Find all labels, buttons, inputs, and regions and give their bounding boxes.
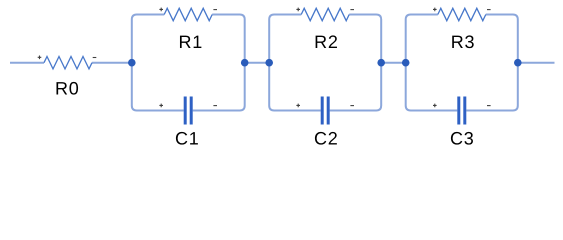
node B	[241, 59, 249, 67]
node A	[128, 59, 136, 67]
wire R0 to node A	[92, 62, 132, 64]
capacitor C2	[296, 97, 354, 149]
node D	[377, 59, 385, 67]
wire node B to node C	[245, 62, 270, 64]
capacitor C3	[433, 97, 491, 149]
svg-text:C2: C2	[314, 128, 339, 148]
node F	[514, 59, 522, 67]
svg-text:R0: R0	[55, 78, 80, 98]
capacitor C1	[159, 97, 217, 149]
resistor R3	[433, 8, 491, 53]
node E	[402, 59, 410, 67]
node C	[265, 59, 273, 67]
svg-text:R3: R3	[451, 32, 476, 52]
wire input left	[10, 62, 44, 64]
resistor R1	[159, 8, 217, 53]
RC section 2 frame	[269, 15, 381, 111]
wire node D to node E	[381, 62, 406, 64]
svg-text:R2: R2	[314, 32, 339, 52]
svg-text:R1: R1	[178, 32, 203, 52]
wire output right	[518, 62, 555, 64]
RC section 3 frame	[406, 15, 518, 111]
resistor R2	[296, 8, 354, 53]
resistor R0	[38, 56, 97, 99]
svg-text:C1: C1	[175, 128, 200, 148]
svg-text:C3: C3	[450, 128, 475, 148]
RC section 1 frame	[132, 15, 245, 111]
